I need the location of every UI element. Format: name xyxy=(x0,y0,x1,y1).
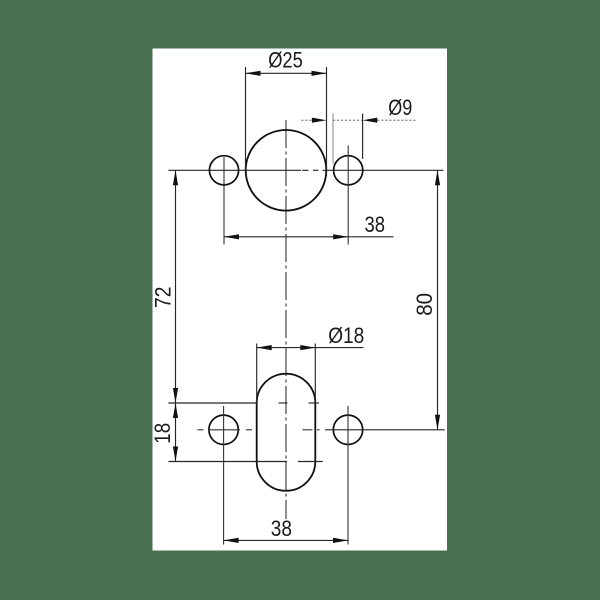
svg-text:80: 80 xyxy=(412,293,437,316)
vertical centerline main axis x=286 xyxy=(285,120,287,519)
bottom group horizontal centerline y=429.8 xyxy=(198,429,320,431)
dimension 18 left xyxy=(175,403,177,462)
top right hole D9 xyxy=(334,156,363,185)
centerline top-right hole xyxy=(347,146,349,245)
bottom left hole D9 xyxy=(209,415,238,444)
dimension D25 xyxy=(246,67,327,171)
svg-text:Ø9: Ø9 xyxy=(388,95,412,120)
dimension D9 xyxy=(301,119,416,121)
centerline top-left hole xyxy=(223,157,225,245)
horizontal centerline top group y=170.3 xyxy=(168,169,443,171)
big circle D25 xyxy=(246,130,327,211)
reference line slot bottom center y=461.5 xyxy=(168,461,322,463)
dimension 72 left xyxy=(175,170,177,403)
bottom right hole D9 xyxy=(333,415,362,444)
svg-text:38: 38 xyxy=(271,516,292,541)
reference line slot top center y=403 xyxy=(168,402,319,404)
svg-text:38: 38 xyxy=(365,212,386,237)
svg-text:Ø18: Ø18 xyxy=(328,323,364,348)
svg-text:18: 18 xyxy=(150,423,175,444)
white drawing panel xyxy=(153,49,448,551)
svg-text:72: 72 xyxy=(151,287,176,308)
top left hole D9 xyxy=(209,156,238,185)
obround slot D18 xyxy=(257,374,316,491)
bottom holes vertical centerlines / extension lines xyxy=(223,406,225,545)
dimension D18 xyxy=(257,344,364,404)
dimension 80 right xyxy=(437,170,439,430)
dimension 38 bottom xyxy=(224,539,348,541)
dimension 38 top xyxy=(224,236,394,238)
svg-text:Ø25: Ø25 xyxy=(268,48,303,73)
